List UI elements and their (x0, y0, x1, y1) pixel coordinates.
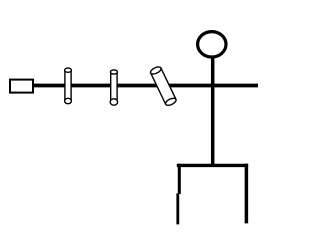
wire rod (horizontal pole) (33, 84, 258, 88)
stick figure body (torso line) (211, 58, 215, 166)
right leg (245, 164, 249, 224)
stick figure head (198, 32, 226, 57)
cylinder 2 (middle vertical cylinder on rod) (110, 70, 117, 105)
cylinder 3 (tilted cylinder on rod) (149, 66, 177, 107)
left leg upper segment (178, 164, 181, 194)
cylinder 1 (left vertical cylinder on rod) (65, 68, 72, 104)
hip line (177, 164, 248, 167)
handle block at left end of rod (10, 80, 33, 93)
left leg lower segment (176, 193, 179, 224)
